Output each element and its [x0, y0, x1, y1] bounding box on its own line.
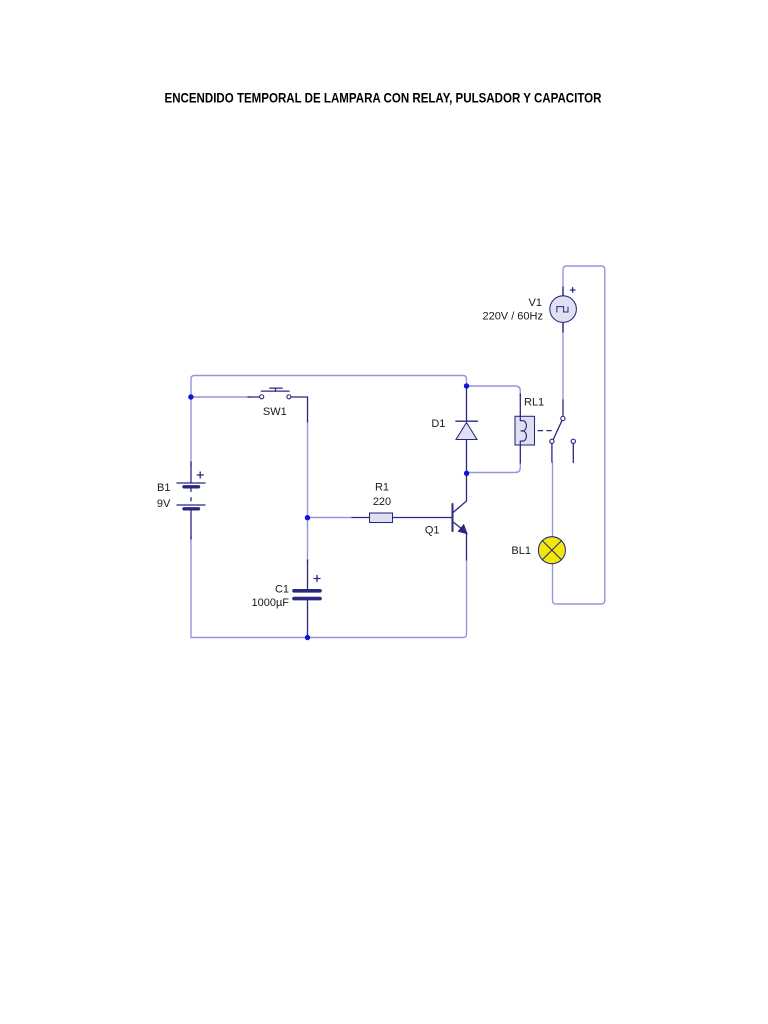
svg-text:V1: V1 — [529, 297, 542, 309]
svg-text:220V / 60Hz: 220V / 60Hz — [482, 311, 543, 323]
svg-text:9V: 9V — [157, 498, 171, 510]
svg-text:BL1: BL1 — [511, 545, 531, 557]
svg-text:ENCENDIDO TEMPORAL DE LAMPARA: ENCENDIDO TEMPORAL DE LAMPARA CON RELAY,… — [165, 90, 602, 106]
svg-text:220: 220 — [373, 496, 391, 508]
svg-text:R1: R1 — [375, 482, 389, 494]
svg-text:Q1: Q1 — [425, 525, 440, 537]
svg-text:D1: D1 — [431, 418, 445, 430]
svg-text:1000µF: 1000µF — [251, 597, 289, 609]
svg-text:RL1: RL1 — [524, 397, 544, 409]
svg-text:C1: C1 — [275, 583, 289, 595]
svg-text:B1: B1 — [157, 482, 170, 494]
svg-text:SW1: SW1 — [263, 406, 287, 418]
